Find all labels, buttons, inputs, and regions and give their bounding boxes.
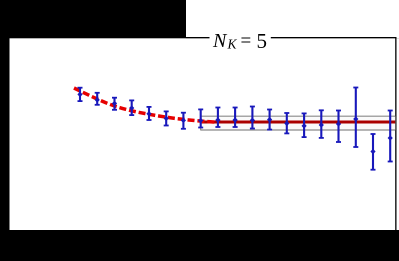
svg-text:5: 5 bbox=[257, 29, 268, 53]
svg-text:K: K bbox=[227, 36, 238, 51]
svg-text:N: N bbox=[212, 30, 228, 52]
svg-text:=: = bbox=[241, 30, 252, 51]
